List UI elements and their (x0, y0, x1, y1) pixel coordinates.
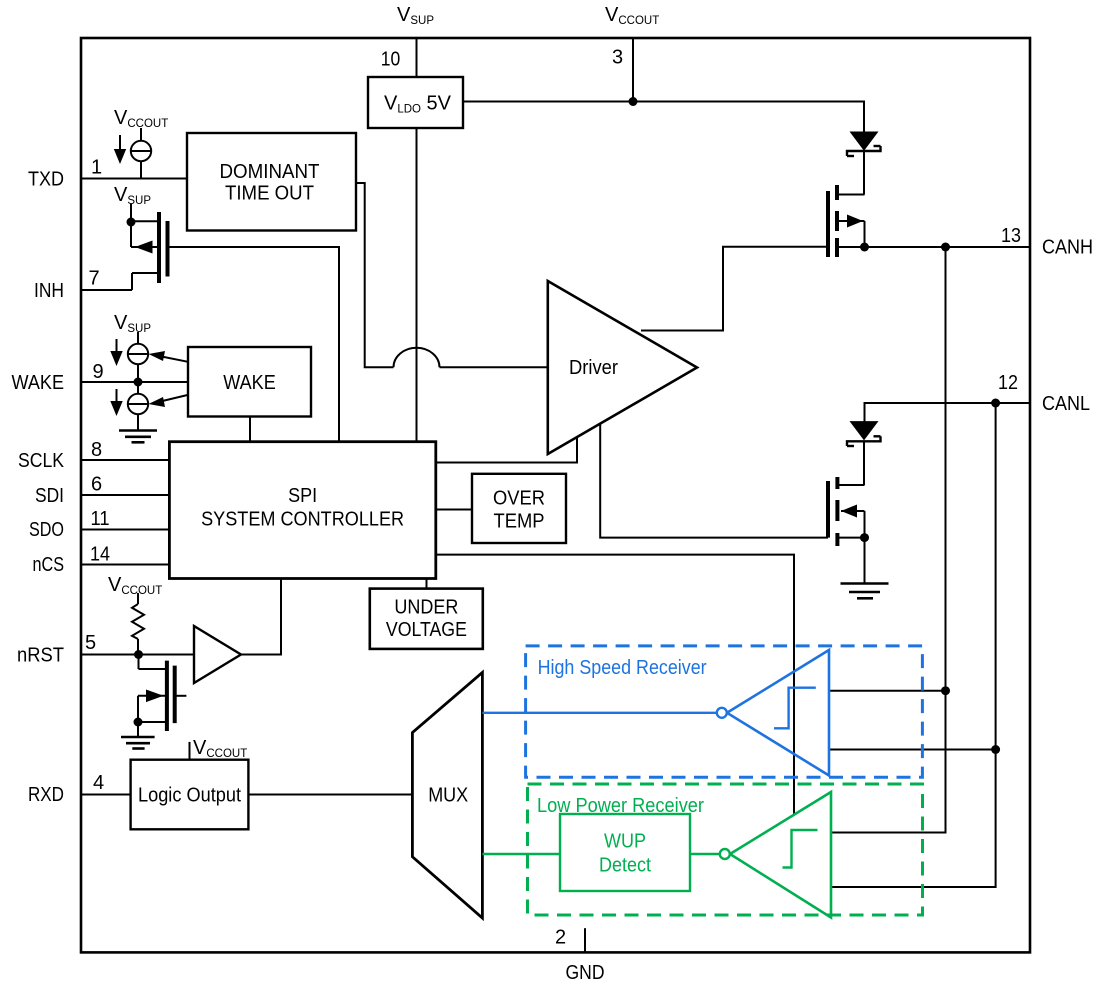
node CANH branch (941, 243, 950, 252)
pin 3 stub (VCCOUT) (632, 38, 634, 102)
pin 9 wire WAKE (81, 381, 188, 383)
WAKE block (188, 347, 311, 417)
svg-text:nCS: nCS (33, 554, 65, 576)
node VCCOUT junction (629, 97, 638, 106)
current source I3 (WAKE lower) (128, 382, 148, 430)
svg-text:INH: INH (34, 280, 64, 302)
Q4 top channel dash (835, 477, 839, 489)
Q2 body arrow (146, 690, 164, 703)
pin 5 wire nRST (81, 654, 194, 656)
pin 10 stub (VSUP) (416, 38, 418, 77)
SPI SYSTEM CONTROLLER block (169, 442, 435, 579)
wire HS receiver input from CANH (829, 690, 946, 692)
node at CANL rail (991, 745, 1000, 754)
U4 hysteresis symbol (783, 830, 818, 868)
svg-text:1: 1 (91, 157, 102, 179)
wire SPI to receiver enable (436, 555, 794, 814)
wire Logic Output to MUX (248, 794, 412, 796)
Logic Output block (131, 760, 249, 830)
node CANL branch (991, 399, 1000, 408)
VCCOUT label at Logic Output (190, 737, 248, 760)
svg-text:SCLK: SCLK (18, 450, 65, 472)
arrow WAKE box to I3 (149, 395, 189, 407)
pin 7 wire INH (81, 289, 132, 291)
driver output to high-side gate (641, 247, 828, 331)
svg-text:14: 14 (90, 544, 110, 566)
node VSUP at Q1 (127, 218, 136, 227)
svg-text:nRST: nRST (17, 645, 64, 667)
pin 4 wire RXD (81, 794, 131, 796)
wire arc to driver (440, 366, 548, 368)
svg-text:2: 2 (555, 927, 566, 949)
arrow down at I2 (110, 339, 122, 366)
driver amp U2 (548, 281, 697, 454)
svg-text:VOLTAGE: VOLTAGE (386, 619, 467, 641)
svg-text:WAKE: WAKE (12, 372, 65, 394)
svg-text:WAKE: WAKE (223, 372, 276, 394)
svg-text:TXD: TXD (28, 169, 64, 191)
wire buffer to SPI (241, 579, 281, 655)
wire from DOMINANT to driver input (356, 183, 394, 367)
wire WUP Detect to U4 (690, 853, 720, 855)
arrow WAKE box to I2 (149, 351, 189, 362)
svg-text:TIME OUT: TIME OUT (225, 183, 314, 205)
pin 12 wire CANL (865, 403, 1031, 422)
ground below Q2 (121, 722, 155, 749)
svg-text:6: 6 (91, 474, 102, 496)
svg-text:UNDER: UNDER (394, 597, 458, 619)
svg-text:OVER: OVER (493, 488, 545, 510)
transistor Q3 (high side to CANH) (828, 185, 865, 257)
svg-text:CANL: CANL (1042, 393, 1090, 415)
node WAKE junction (134, 378, 143, 387)
pin 6 wire SDI (81, 494, 169, 496)
node Q2 source (134, 718, 143, 727)
svg-text:DOMINANT: DOMINANT (220, 161, 320, 183)
pin 13 wire CANH (865, 246, 1031, 248)
VSUP vertical rail (416, 128, 418, 442)
pin 2 stub (GND) (584, 928, 586, 952)
wire HS receiver input from CANL (829, 749, 996, 751)
node CANH at Q3 source (860, 243, 869, 252)
current source I2 (WAKE upper) (128, 332, 148, 382)
DOMINANT TIME OUT block (187, 133, 356, 231)
Q3 body arrow (847, 215, 863, 228)
svg-text:3: 3 (612, 47, 623, 69)
svg-text:WUP: WUP (604, 831, 646, 853)
svg-text:Logic Output: Logic Output (138, 785, 241, 807)
svg-text:5: 5 (85, 632, 96, 654)
HS receiver comparator U3 (727, 650, 829, 776)
svg-text:SYSTEM CONTROLLER: SYSTEM CONTROLLER (201, 509, 404, 531)
Low Power Receiver dashed box (528, 784, 923, 915)
wire SPI to OVER TEMP (436, 509, 472, 511)
svg-text:TEMP: TEMP (494, 511, 545, 533)
transistor Q1 (PMOS at INH) (131, 204, 168, 290)
Q4 body arrow (841, 505, 857, 518)
pin 1 wire TXD (81, 178, 187, 180)
svg-text:GND: GND (566, 962, 605, 984)
ground below Q4 (841, 538, 889, 599)
svg-text:SPI: SPI (288, 485, 317, 507)
node Q4 source (860, 533, 869, 542)
regulator VLDO box (368, 77, 463, 128)
OVER TEMP block (472, 474, 566, 543)
arrow down at I3 (110, 389, 122, 416)
LP receiver comparator U4 (730, 792, 831, 918)
pin 14 wire nCS (81, 564, 169, 566)
svg-text:Detect: Detect (599, 855, 651, 877)
svg-text:12: 12 (998, 372, 1018, 394)
driver output to low-side gate (600, 424, 828, 538)
svg-text:High Speed Receiver: High Speed Receiver (538, 657, 707, 679)
wire CANH branch down to receivers (831, 247, 946, 833)
svg-text:9: 9 (92, 361, 103, 383)
transistor Q2 (NMOS at nRST) (138, 655, 186, 732)
WUP Detect block (560, 814, 690, 891)
svg-text:8: 8 (91, 439, 102, 461)
wire WAKE block to SPI (249, 417, 251, 442)
diode D1 (top zener) (847, 132, 881, 195)
VCCOUT wire from VLDO to top diode (463, 102, 864, 133)
svg-text:13: 13 (1001, 225, 1021, 247)
svg-text:CANH: CANH (1042, 237, 1093, 259)
diode D2 (bottom zener) (847, 422, 881, 485)
current source I1 at TXD (131, 128, 151, 179)
wire MUX to WUP Detect (482, 853, 560, 855)
wire SPI to UNDER VOLTAGE (426, 578, 428, 589)
svg-text:MUX: MUX (428, 785, 468, 807)
svg-text:SDO: SDO (29, 519, 64, 541)
IC outer boundary (81, 38, 1030, 952)
svg-text:11: 11 (91, 508, 110, 530)
arrow down at I1 (114, 135, 126, 164)
svg-text:7: 7 (88, 268, 99, 290)
transistor Q4 (low side to CANL) (828, 477, 865, 546)
node at CANH rail (941, 686, 950, 695)
wire CANL branch down to receivers (831, 403, 996, 887)
UNDER VOLTAGE block (370, 589, 483, 649)
wire hop arc over VSUP rail (394, 348, 440, 368)
buffer U1 at nRST (194, 626, 241, 683)
High Speed Receiver dashed box (526, 646, 923, 777)
Q1 body arrow (135, 241, 153, 254)
wire MUX to U3 (482, 712, 716, 714)
pin 11 wire SDO (81, 529, 169, 531)
resistor R1 at nRST (132, 593, 144, 655)
svg-text:10: 10 (381, 49, 401, 71)
U3 output bubble (717, 708, 727, 718)
pin 8 wire SCLK (81, 459, 169, 461)
U4 output bubble (720, 849, 730, 859)
wire SPI to driver enable (436, 438, 577, 463)
Q1 gate wire to SPI (168, 247, 340, 442)
MUX block (412, 672, 482, 918)
node nRST junction (134, 650, 143, 659)
svg-text:SDI: SDI (35, 485, 64, 507)
svg-text:RXD: RXD (28, 784, 64, 806)
U3 hysteresis symbol (774, 688, 816, 729)
svg-text:Driver: Driver (569, 357, 618, 379)
svg-text:4: 4 (93, 772, 104, 794)
ground below I3 (119, 431, 157, 443)
